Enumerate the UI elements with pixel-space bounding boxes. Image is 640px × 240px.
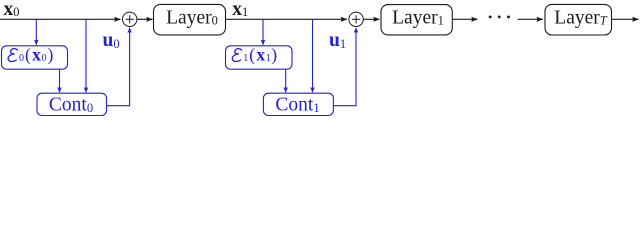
wire Layer0 to adder 2 [226,18,348,20]
node x1 label [232,0,248,20]
block Layer1 [381,5,452,35]
block encoder E0 [2,44,68,69]
svg-text:(: ( [249,44,255,64]
block LayerT [545,4,612,35]
wire tap x0 to encoder E0 [35,19,37,45]
wire adder 2 to Layer1 [363,18,379,20]
block Layer0 [154,4,226,35]
svg-text:Layer0: Layer0 [166,7,218,28]
wire tap x0 to Cont0 [85,20,87,92]
wire Cont1 feedback to adder 2 [333,28,356,106]
node u0 label [103,30,120,51]
svg-text:Layer1: Layer1 [392,7,444,28]
block Cont1 [263,93,333,115]
svg-text:0: 0 [42,53,47,64]
svg-text:x1: x1 [232,0,248,20]
adder 2 (plus in circle) [349,12,363,26]
wire encoder E1 to Cont1 [285,69,287,92]
glyph script E [8,49,18,62]
svg-text:u0: u0 [103,30,120,51]
svg-text:0: 0 [19,53,24,64]
block encoder E1 [226,44,293,69]
svg-text:): ) [48,44,54,64]
svg-text:1: 1 [243,53,248,64]
wire tap x1 to Cont1 [312,20,314,92]
wire dots to LayerT [518,18,543,20]
wire main input to adder 1 [0,18,121,20]
svg-text:x: x [32,44,41,64]
svg-text:x0: x0 [4,0,20,20]
block Cont0 [37,93,107,115]
svg-text:1: 1 [266,53,271,64]
node u1 label [329,30,346,51]
svg-text:): ) [271,44,277,64]
wire tap x1 to encoder E1 [262,19,264,45]
glyph script E [232,49,242,62]
svg-text:Cont0: Cont0 [49,94,93,115]
ellipsis dots [489,15,510,18]
wire LayerT output [612,18,639,20]
svg-text:x: x [256,44,265,64]
svg-text:(: ( [25,44,31,64]
wire adder 1 to Layer0 [137,18,153,20]
svg-text:u1: u1 [329,30,346,51]
wire encoder E0 to Cont0 [59,69,61,92]
node x0 label [4,0,20,20]
adder 1 (plus in circle) [123,12,137,26]
svg-text:LayerT: LayerT [554,7,607,28]
svg-text:Cont1: Cont1 [275,94,319,115]
wire Cont0 feedback to adder 1 [107,28,130,106]
wire Layer1 to dots [452,18,477,20]
